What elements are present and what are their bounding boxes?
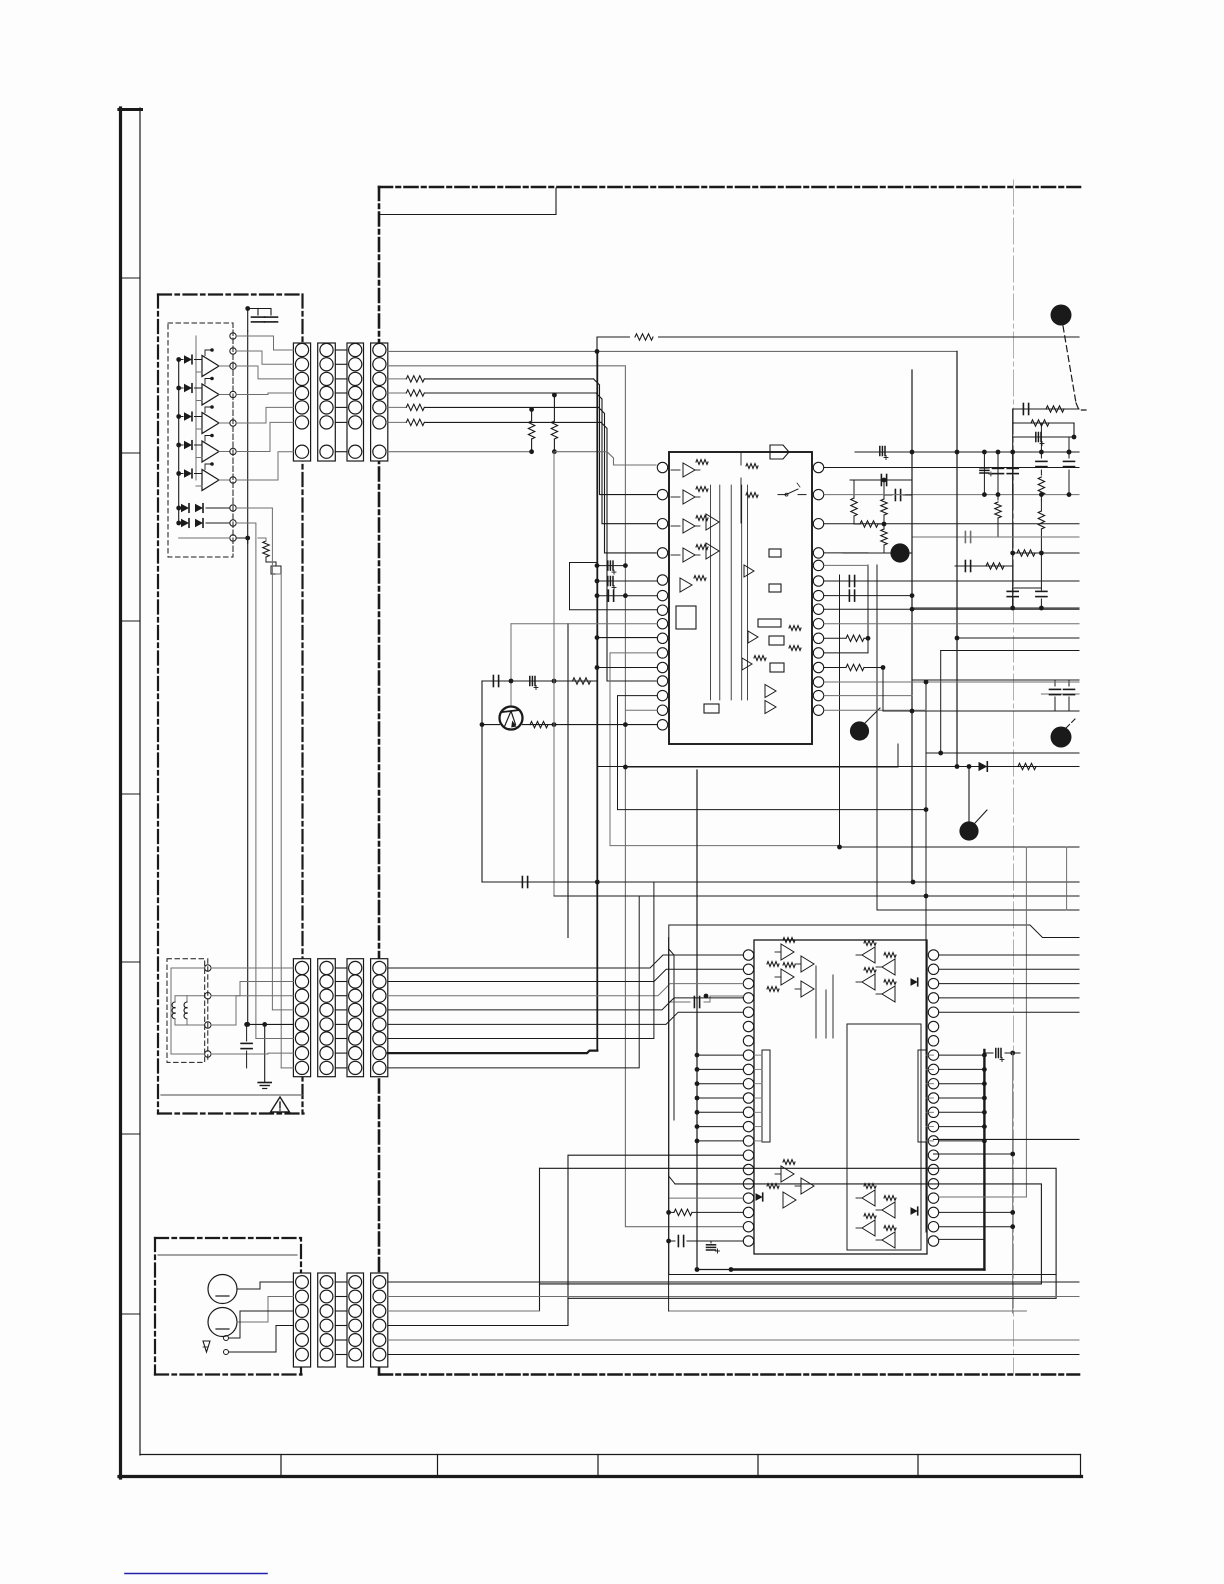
node PC2 [205, 993, 211, 999]
ic U1 inner wire [747, 485, 749, 700]
wire link [335, 1067, 347, 1069]
wire link [335, 981, 347, 983]
wire bus kv3 [236, 508, 272, 1010]
ic U2 pin L1 [743, 950, 753, 960]
wire [176, 521, 230, 526]
ic U2 pin L13 [743, 1121, 753, 1131]
wire row 694 [1041, 693, 1079, 695]
junction [910, 450, 915, 455]
capacitor C17 [881, 475, 886, 486]
ic U1 body [669, 452, 812, 744]
wire bold bus v984 [983, 1050, 985, 1270]
wire buffer U4 in [195, 445, 203, 458]
wire link [335, 1296, 347, 1298]
ic U1 buffer 3 [671, 516, 708, 533]
border left outer [119, 108, 122, 1478]
wire bus kv5 [264, 1024, 266, 1082]
wire [824, 695, 912, 697]
wire link [335, 1354, 347, 1356]
buffer U3 [202, 413, 219, 434]
border bottom outer [119, 1475, 1082, 1478]
wire buffer U3 in [195, 417, 203, 430]
wire [625, 709, 657, 711]
ic U1 res a [754, 626, 801, 661]
capacitor C4 [595, 577, 658, 590]
wire row 680 [912, 679, 1079, 681]
diode D10 [756, 1193, 763, 1201]
ic U2 pin L9 [743, 1064, 753, 1074]
ic U1 gate B [706, 543, 719, 559]
ic U2 pin R17 [928, 1179, 938, 1189]
ic U2 pin R11 [928, 1093, 938, 1103]
wire row 409 [1013, 408, 1079, 410]
board outline bottom edge [379, 1373, 1079, 1376]
capacitor C22 [1036, 553, 1047, 608]
wire bus [388, 350, 957, 352]
wire [236, 366, 293, 379]
junction [982, 1139, 987, 1144]
junction [695, 1067, 700, 1072]
wire [754, 1068, 762, 1070]
wire loop 2 [540, 1184, 1042, 1284]
ic U1 pin R1 [813, 462, 823, 472]
connector J3-4 [371, 1273, 388, 1367]
wire v1069 [1067, 470, 1072, 497]
wire link [335, 1038, 347, 1040]
junction [552, 679, 557, 684]
ic U1 pin R5 [813, 560, 823, 570]
ic U1 box D [769, 584, 781, 592]
wire v1041 [1040, 470, 1042, 475]
wire row 638 long [955, 636, 1079, 641]
resistor R12 [1038, 477, 1044, 500]
wire [824, 564, 868, 566]
junction [695, 1267, 734, 1272]
jack unit box top [155, 1238, 301, 1272]
diode D2 [176, 384, 192, 393]
junction [982, 1096, 987, 1101]
wire row 651 long [941, 650, 1079, 652]
ic U2 opamps C [767, 1160, 814, 1208]
capacitor C5 [595, 590, 658, 601]
wire buffer U1 in [195, 360, 203, 373]
wire bus v839 [839, 575, 841, 847]
wire [211, 982, 293, 996]
wire [754, 1054, 762, 1056]
ic U1 box C [769, 549, 781, 557]
ic U1 pin L14 [657, 705, 667, 715]
wire bold [388, 1051, 598, 1054]
ic U1 pin L2 [657, 489, 667, 499]
resistor R4 [388, 419, 601, 425]
resistor R19 [1017, 550, 1035, 556]
wire [697, 1140, 743, 1142]
wire link [335, 421, 347, 423]
connector J3-2 [318, 1273, 336, 1367]
buffer U4 [202, 441, 219, 462]
wire pin653 stub [824, 652, 868, 654]
wire [824, 494, 905, 496]
diode D7a [181, 519, 189, 528]
ic U1 pin L3 [657, 519, 667, 529]
ic U1 pin L6 [657, 590, 667, 600]
resistor R8 [573, 678, 591, 684]
ic U1 gate D [742, 631, 758, 670]
jack J4 ring [208, 1275, 237, 1304]
wire [388, 969, 744, 981]
border tick 4 [120, 793, 140, 795]
ic U2 pin R2 [928, 964, 938, 974]
node P5 [230, 420, 236, 426]
jack unit box right stub [300, 1367, 302, 1375]
ic U1 switch [778, 483, 806, 496]
capacitor C7 [530, 677, 538, 690]
ic U1 pin R7 [813, 590, 823, 600]
led block dashed box [168, 323, 233, 557]
ic U1 pin R14 [813, 690, 823, 700]
node PC3 [205, 1022, 211, 1028]
junction [245, 536, 250, 541]
capacitor C11 [880, 447, 888, 460]
connector J1-2 [318, 343, 336, 461]
connector J1-4 [371, 343, 388, 461]
junction [982, 450, 987, 455]
wire link [335, 378, 347, 380]
ic U2 pin L6 [743, 1021, 753, 1031]
junction [982, 1081, 987, 1086]
wire link [335, 1325, 347, 1327]
diode D3 [176, 412, 192, 421]
wire [388, 1296, 1079, 1298]
wire [523, 722, 658, 727]
wire [926, 1068, 934, 1070]
resistor R25 [666, 1209, 743, 1215]
ic U1 pin L15 [657, 720, 667, 730]
border bottom inner [140, 1454, 1081, 1456]
board outline left edge [378, 187, 381, 1375]
node P6 [230, 448, 236, 454]
wire buffer U1 top [205, 348, 214, 355]
capacitor C30 [984, 1049, 1020, 1062]
resistor VR1 [263, 541, 281, 574]
wire row 910 [877, 909, 1079, 911]
ic U1 pin R11 [813, 648, 823, 658]
wire [697, 1054, 743, 1056]
ic U2 pin L3 [743, 978, 753, 988]
wire [236, 422, 293, 451]
ic U2 pin R1 [928, 950, 938, 960]
ic U2 pin R20 [928, 1222, 938, 1232]
capacitor C18 [884, 490, 912, 501]
connector J1-1 [293, 343, 310, 461]
junction [1039, 450, 1044, 455]
ic U1 pin R3 [813, 519, 823, 529]
wire row 847 [837, 845, 1079, 850]
node P3 [230, 363, 236, 369]
wire [939, 1126, 985, 1128]
wire [388, 1354, 1079, 1356]
wire [595, 665, 658, 670]
wire row 608 [912, 606, 1079, 611]
wire [754, 1097, 762, 1099]
wire row 480 [850, 479, 912, 481]
ic U1 pin L11 [657, 662, 667, 672]
ic U2 pin R6 [928, 1021, 938, 1031]
capacitor C16 [1064, 437, 1075, 467]
resistor R15 [851, 480, 857, 524]
wire [669, 1197, 744, 1199]
capacitor C26 [849, 576, 854, 587]
ic U1 wire [740, 452, 742, 523]
capacitor C12 [980, 452, 993, 497]
capacitor C13 [993, 452, 1004, 497]
capacitor C10 [1036, 433, 1044, 446]
wire [926, 1097, 934, 1099]
border bottom divider 4 [757, 1455, 759, 1477]
node P2 [230, 348, 236, 354]
wire row 595 [824, 593, 914, 598]
wire pin638 branch [824, 635, 870, 641]
node P8 [230, 505, 236, 511]
wire link [335, 1310, 347, 1312]
wire bus v668 [669, 938, 675, 1312]
ic U1 inner wire [719, 485, 721, 700]
wire [926, 1111, 934, 1113]
wire [229, 1326, 294, 1353]
ic U2 pin L16 [743, 1164, 753, 1174]
border bottom divider 5 [917, 1455, 919, 1477]
capacitor C21 [1007, 588, 1018, 608]
led bus mid [195, 336, 197, 480]
wire [256, 1038, 294, 1040]
wire bus v868 [867, 565, 869, 653]
ic U1 pin R9 [813, 619, 823, 629]
wire bus v597 [596, 351, 598, 1050]
border tick 2 [120, 452, 140, 454]
wire buffer U1 out [219, 365, 230, 367]
ic U1 box A [676, 606, 696, 629]
wire bus v568 [567, 624, 569, 938]
wire row 1226 [939, 1224, 1015, 1229]
connector J2-3 [347, 959, 364, 1077]
wire [939, 983, 1079, 985]
wire link [335, 1052, 347, 1054]
junction [982, 1053, 987, 1058]
junction [595, 349, 600, 354]
junction [982, 1124, 987, 1129]
node P1 [230, 333, 236, 339]
wire [388, 896, 639, 1068]
wire [236, 351, 293, 364]
wire buffer U5 out [219, 479, 230, 481]
wire bus v568b [568, 1155, 743, 1325]
wire [388, 1310, 540, 1312]
connector J2-1 [293, 959, 310, 1077]
junction [244, 1022, 267, 1027]
wire [939, 997, 1079, 999]
junction [695, 1096, 700, 1101]
wire row 553 [843, 552, 912, 554]
wire [697, 1068, 743, 1070]
wire [939, 1068, 985, 1070]
ic U2 pin R16 [928, 1164, 938, 1174]
wire bus v912 [911, 370, 913, 882]
ic U2 pin R18 [928, 1193, 938, 1203]
wire row 681 [482, 680, 597, 682]
wire [237, 1282, 293, 1289]
ic U1 box F [769, 636, 784, 672]
wire [697, 1111, 743, 1113]
diode D7b [195, 519, 203, 528]
resistor R14 [995, 495, 1001, 537]
wire [481, 725, 483, 882]
ic U1 box E [758, 619, 781, 627]
ic U2 pin R14 [928, 1136, 938, 1146]
resistor R21 [1018, 763, 1036, 769]
wire [237, 1297, 293, 1323]
ic U2 pin R10 [928, 1079, 938, 1089]
ic U2 pin R8 [928, 1050, 938, 1060]
ic U1 tri1 [765, 685, 776, 714]
jack J5 ring [208, 1308, 237, 1337]
wire bus v617 [618, 696, 929, 812]
inductor L2 [184, 1002, 187, 1019]
wire bus v940 [940, 651, 942, 754]
page dot PD4 [1051, 727, 1072, 748]
wire [211, 996, 293, 1025]
wire [176, 506, 230, 511]
ic U1 pin R2 [813, 489, 823, 499]
wire [824, 681, 1079, 683]
ic U1 pin R6 [813, 576, 823, 586]
wire bend [601, 422, 656, 681]
wire [388, 1339, 1079, 1341]
ic U1 pin L9 [657, 633, 667, 643]
wire [388, 882, 654, 1039]
wire bus v1026 [1025, 847, 1027, 1197]
board outline notch [380, 188, 556, 215]
ic U1 pin L10 [657, 648, 667, 658]
ic U2 opamps A [767, 938, 814, 997]
ic U2 pin R4 [928, 993, 938, 1003]
wire row 566 [955, 565, 1013, 567]
fold mark dash-dot [1013, 180, 1015, 1374]
wire [258, 538, 266, 541]
wire bus v883 [882, 668, 884, 712]
wire [939, 1140, 985, 1142]
wire row 753 [926, 751, 1079, 756]
wire link [335, 1009, 347, 1011]
wire row 1154 [934, 1152, 1016, 1157]
resistor R16 [854, 521, 886, 527]
wire [236, 538, 248, 543]
wire [388, 998, 744, 1010]
wire [203, 1346, 208, 1348]
wire [388, 955, 744, 968]
ic U2 pin L8 [743, 1050, 753, 1060]
capacitor C9 [1023, 404, 1028, 415]
wire [236, 452, 293, 480]
ic U2 pin R7 [928, 1036, 938, 1046]
connector J2-4 [371, 959, 388, 1077]
border tick 6 [120, 1133, 140, 1135]
border tick 3 [120, 620, 140, 622]
wire buffer U4 top [205, 434, 214, 441]
key unit box top [158, 293, 303, 295]
border tick 1 [120, 277, 140, 279]
diode D6a [181, 504, 189, 513]
buffer U1 [202, 356, 219, 377]
connector J1-3 [347, 343, 364, 461]
ic U2 pin R19 [928, 1207, 938, 1217]
ic U1 buffer 4 [671, 545, 708, 562]
ic U1 pin L5 [657, 575, 667, 585]
ic U2 pin L10 [743, 1079, 753, 1089]
wire [171, 968, 205, 1054]
ic U1 pin L12 [657, 676, 667, 686]
resistor R5 [528, 407, 534, 452]
page dot PD4 leader [1066, 719, 1075, 728]
wire row 494 [905, 494, 1079, 496]
wire bus v877 [876, 565, 878, 910]
resistor R17 [881, 478, 887, 524]
ic U2 pin R3 [928, 978, 938, 988]
junction [509, 679, 514, 684]
wire [236, 407, 293, 423]
junction [982, 1110, 987, 1115]
connector J3-3 [347, 1273, 364, 1367]
wire [388, 1325, 568, 1327]
wire [939, 1054, 985, 1056]
jack unit gray divider [158, 1254, 297, 1256]
transistor Q1 [500, 707, 523, 730]
wire bus v898 [897, 744, 899, 767]
ic U2 pin L11 [743, 1093, 753, 1103]
wire buffer U5 in [195, 474, 203, 487]
wire [824, 467, 1079, 469]
capacitor C15 [1036, 423, 1047, 467]
wire buffer U3 out [219, 422, 230, 424]
wire buffer U2 top [205, 377, 214, 384]
page dot PD3 [850, 721, 869, 740]
wire row 437 [1013, 435, 1077, 440]
wire [595, 635, 658, 640]
node PC1 [205, 965, 211, 971]
wire row 766 [598, 766, 1079, 768]
resistor R7 [630, 332, 658, 342]
ic U2 pin L12 [743, 1107, 753, 1117]
wire bus v511 [510, 624, 512, 707]
ic U1 gate C [770, 445, 789, 459]
wire [388, 984, 744, 996]
wire [388, 451, 532, 453]
wire [939, 1097, 985, 1099]
wire row 896 [554, 894, 1079, 899]
wire link [335, 1339, 347, 1341]
ic U2 pin L18 [743, 1193, 753, 1203]
wire bus kv4 [276, 574, 281, 1068]
capacitor C2 [265, 317, 278, 322]
resistor R10 [1046, 406, 1064, 412]
ic U2 pin L20 [743, 1222, 753, 1232]
wire [247, 331, 249, 543]
ic U2 pin L19 [743, 1207, 753, 1217]
wire link [335, 406, 347, 408]
wire [272, 1009, 293, 1011]
ic U2 pin R9 [928, 1064, 938, 1074]
buffer U5 [202, 470, 219, 491]
wire [939, 968, 1079, 970]
